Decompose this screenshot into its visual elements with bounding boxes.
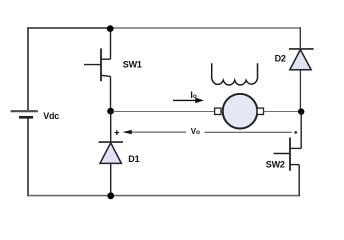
diode D2 cathode bar (289, 48, 314, 50)
motor left terminal (215, 108, 221, 114)
arrow Io (current direction) (173, 99, 197, 101)
node junction middle (SW1 source / D1 cathode / motor) (107, 108, 114, 115)
transistor SW2 source lead (290, 164, 299, 166)
diode D1 triangle (100, 143, 121, 164)
wire Vo measurement line right (205, 131, 292, 133)
diode D1 cathode bar (99, 141, 124, 143)
svg-text:SW1: SW1 (123, 59, 142, 69)
wire bottom rail (28, 195, 299, 197)
svg-text:Vo: Vo (191, 127, 200, 136)
label + (Vo positive polarity mark) (115, 130, 120, 135)
diode D2 triangle (290, 50, 311, 70)
motor right terminal (257, 108, 263, 114)
transistor SW2 channel bar (289, 138, 291, 171)
node Vo negative end dot (294, 131, 297, 134)
transistor SW2 gate lead (274, 153, 291, 155)
transistor SW2 drain wire (300, 112, 302, 149)
transistor SW2 source wire (298, 165, 300, 197)
node junction right (motor / D2 anode / SW2 drain) (298, 108, 304, 114)
node junction top (SW1 drain / top rail) (107, 25, 114, 32)
arrowhead Vo (left pointing) (123, 130, 132, 134)
wire top rail right segment (110, 27, 300, 29)
transistor SW1 source wire (110, 76, 112, 111)
svg-text:D2: D2 (275, 54, 286, 64)
wire top rail left segment (28, 27, 110, 29)
battery Vdc negative plate (19, 116, 33, 119)
svg-text:SW2: SW2 (266, 159, 285, 169)
transistor SW1 source lead (101, 75, 111, 76)
wire middle node to motor left terminal (113, 111, 215, 113)
wire right vertical (top rail to D2 cathode) (299, 27, 301, 48)
wire left vertical lower (Vdc - to bottom rail) (27, 117, 29, 196)
transistor SW1 gate lead (84, 64, 101, 66)
wire left vertical upper (Vdc + to top rail) (27, 27, 29, 110)
svg-text:D1: D1 (128, 154, 139, 164)
svg-text:Vdc: Vdc (43, 111, 59, 121)
transistor SW1 channel bar (100, 48, 102, 81)
diode D1 anode wire (110, 164, 112, 196)
diode D2 anode wire (299, 70, 301, 111)
wire motor right terminal to right node (264, 111, 302, 113)
diode D1 cathode wire (110, 111, 112, 142)
node junction bottom (D1 anode / bottom rail) (107, 192, 114, 199)
inductor motor winding (212, 63, 258, 85)
battery Vdc positive plate (11, 110, 38, 112)
transistor SW2 drain lead (290, 147, 301, 149)
transistor SW1 drain lead (101, 58, 111, 60)
wire Vo measurement line left (131, 131, 186, 133)
transistor SW1 drain wire (110, 29, 112, 60)
motor M body (223, 94, 258, 129)
